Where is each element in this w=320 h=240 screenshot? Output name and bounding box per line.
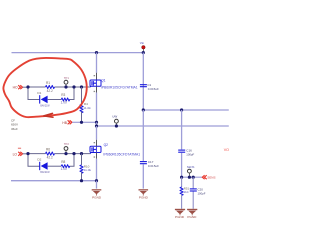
svg-text:2k4: 2k4 bbox=[184, 190, 189, 194]
junction rail2a switch column bbox=[95, 121, 98, 124]
svg-text:LO: LO bbox=[13, 152, 18, 156]
capacitor C20 bbox=[190, 177, 206, 209]
junction on Vin rail at Q1 drain bbox=[95, 51, 98, 54]
resistor R3 bbox=[61, 93, 70, 104]
wire Vin vertical descent to rail1 bbox=[142, 53, 144, 110]
svg-text:42.2: 42.2 bbox=[47, 89, 53, 93]
port HB bbox=[62, 120, 81, 125]
resistor R4 gate-source bbox=[80, 87, 91, 122]
wire sense column C16 branch bbox=[181, 110, 183, 177]
svg-text:IPB60R105CFD7ATMA1: IPB60R105CFD7ATMA1 bbox=[101, 85, 138, 89]
svg-text:PGND: PGND bbox=[175, 215, 185, 219]
port SENS bbox=[202, 175, 215, 179]
junction wire1 pin bbox=[64, 85, 67, 88]
stray red mark bbox=[18, 148, 21, 149]
junction wire1 port bbox=[26, 85, 29, 88]
svg-text:R1: R1 bbox=[46, 81, 50, 85]
ground PGND under C17 bbox=[139, 189, 149, 199]
svg-text:R8: R8 bbox=[61, 160, 65, 164]
svg-text:HO: HO bbox=[13, 86, 18, 90]
wire to PGND under Q2 bbox=[96, 181, 98, 189]
testpoint pin TP1 bbox=[64, 76, 69, 87]
port VO at right edge bbox=[224, 148, 229, 152]
junction wire2 R10 bbox=[80, 152, 83, 155]
svg-text:PGND: PGND bbox=[139, 196, 149, 200]
svg-text:D2: D2 bbox=[37, 158, 41, 162]
svg-text:PGND: PGND bbox=[187, 215, 197, 219]
wire sense net (wire4) bbox=[182, 176, 202, 178]
wire rail2a HB to switch column bbox=[82, 121, 97, 123]
junction wire1 branch bbox=[72, 85, 75, 88]
junction wire4 C16 column bbox=[180, 176, 183, 179]
junction rail3 R10 bbox=[80, 179, 83, 182]
svg-text:UW: UW bbox=[112, 115, 117, 119]
wire top Vin rail bbox=[12, 52, 144, 54]
transistor Q1 bbox=[90, 78, 138, 89]
svg-text:IPB60R105CFD7ATMA1: IPB60R105CFD7ATMA1 bbox=[103, 152, 140, 156]
junction rail2b UW pin bbox=[115, 124, 118, 127]
resistor R6 bbox=[46, 148, 55, 160]
ground PGND under Q2 bbox=[92, 189, 102, 199]
wire rail1 (bus to right edge) bbox=[143, 109, 229, 111]
junction wire2 pin bbox=[64, 152, 67, 155]
svg-text:BAV21W: BAV21W bbox=[40, 104, 50, 107]
svg-text:SENS: SENS bbox=[187, 165, 195, 169]
capacitor C16 bbox=[178, 148, 194, 156]
wire gate net Q1 (wire1) bbox=[28, 83, 92, 87]
wire turn-off branch (left vertical, bottom, right vertical) bbox=[28, 87, 74, 100]
resistor R8 bbox=[61, 160, 70, 171]
wire Q2 drain bbox=[94, 126, 97, 146]
junction rail2a R4 bbox=[80, 121, 83, 124]
testpoint pin TP2 bbox=[64, 142, 69, 154]
junction wire2 branch bbox=[72, 152, 75, 155]
svg-text:R6: R6 bbox=[46, 148, 50, 152]
junction wire4 C20 bbox=[192, 176, 195, 179]
svg-text:1.00: 1.00 bbox=[61, 101, 67, 105]
wire Q2 source bbox=[94, 153, 97, 181]
resistor R1 bbox=[46, 81, 55, 93]
svg-text:11.0k: 11.0k bbox=[84, 168, 92, 172]
junction rail1 at x=143 bbox=[142, 108, 145, 111]
wire Q1 drain bbox=[94, 53, 97, 81]
wire Q1 source bbox=[94, 86, 97, 122]
svg-text:0.015uF: 0.015uF bbox=[148, 87, 159, 91]
wire Vin column below rail1 through C17 bbox=[142, 110, 144, 189]
text block film cap note bbox=[11, 118, 18, 130]
junction at Vin rail corner bbox=[142, 51, 145, 54]
testpoint pin SENS bbox=[187, 165, 195, 177]
svg-text:0.015uF: 0.015uF bbox=[148, 164, 159, 168]
svg-text:SENS: SENS bbox=[207, 175, 215, 179]
svg-text:100pF: 100pF bbox=[198, 191, 206, 195]
svg-text:11.0k: 11.0k bbox=[83, 106, 91, 110]
svg-text:VO: VO bbox=[224, 148, 229, 152]
svg-text:D1: D1 bbox=[37, 91, 41, 95]
svg-text:BAV21W: BAV21W bbox=[40, 171, 50, 174]
svg-text:Q1: Q1 bbox=[101, 78, 105, 82]
resistor R51 bbox=[180, 177, 189, 209]
diode D1 bbox=[37, 91, 50, 107]
power flag Vin bbox=[140, 41, 145, 51]
svg-text:100pF: 100pF bbox=[186, 152, 194, 156]
ground PGND under R51 bbox=[175, 209, 185, 219]
svg-text:HB: HB bbox=[62, 121, 67, 125]
resistor R10 gate-source bbox=[80, 154, 92, 181]
wire rail2b UW node to right edge bbox=[97, 125, 229, 127]
svg-text:Q2: Q2 bbox=[104, 143, 108, 147]
svg-text:PGND: PGND bbox=[92, 196, 102, 200]
svg-text:42.2: 42.2 bbox=[47, 155, 53, 159]
port HO bbox=[13, 85, 29, 90]
transistor Q2 bbox=[90, 143, 140, 156]
junction rail2b switch column bbox=[95, 124, 98, 127]
svg-text:R3: R3 bbox=[61, 93, 65, 97]
svg-text:1.00: 1.00 bbox=[61, 167, 67, 171]
junction rail3 Q2 source bbox=[95, 179, 98, 182]
testpoint pin UW bbox=[112, 115, 118, 126]
capacitor C17 bbox=[140, 160, 159, 168]
wire turn-off branch 2 bbox=[28, 154, 74, 167]
capacitor C1 bbox=[140, 53, 159, 92]
junction rail1 at x=181.6 bbox=[180, 108, 183, 111]
ground PGND under C20 bbox=[187, 209, 197, 219]
wire switch column jog bbox=[96, 122, 98, 126]
junction wire4 pin bbox=[188, 176, 191, 179]
wire gate net Q2 (wire2) bbox=[28, 150, 92, 154]
svg-text:TP1: TP1 bbox=[64, 76, 69, 80]
junction wire2 port bbox=[26, 152, 29, 155]
wire rail3 source return bbox=[11, 180, 97, 182]
junction wire1 R4 bbox=[80, 85, 83, 88]
annotation red loop bbox=[3, 58, 86, 117]
svg-text:36uF: 36uF bbox=[11, 127, 18, 131]
svg-text:TP2: TP2 bbox=[64, 142, 69, 146]
diode D2 bbox=[37, 158, 50, 174]
port LO bbox=[13, 152, 29, 157]
svg-text:Vin: Vin bbox=[140, 41, 145, 45]
